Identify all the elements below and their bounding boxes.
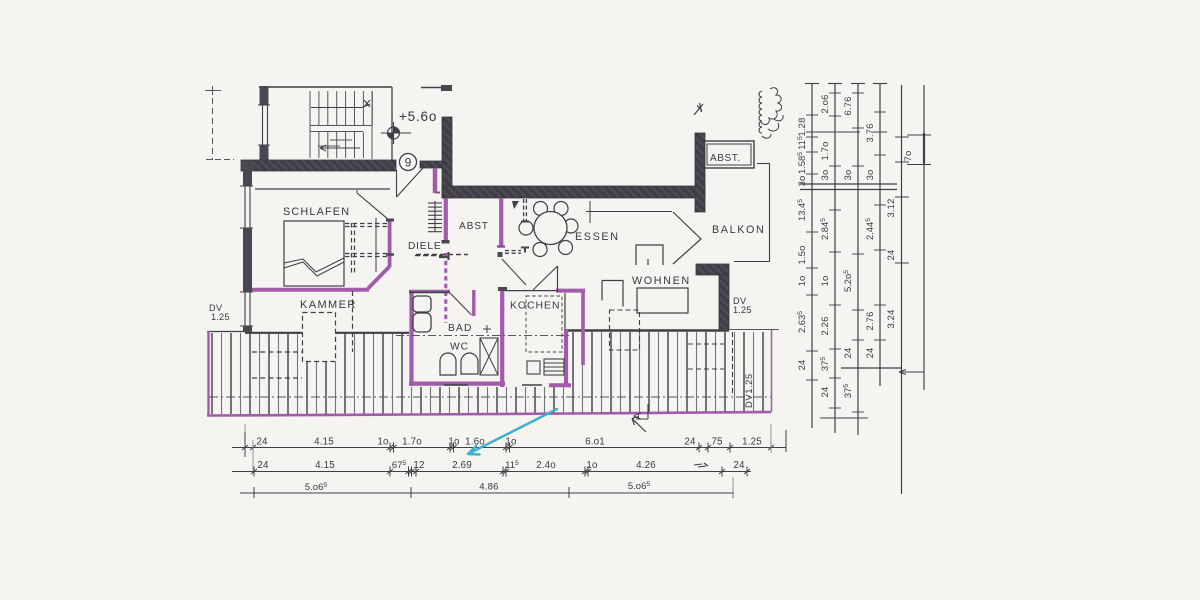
purple SCHLAFEN-KAMMER wall [252, 288, 369, 292]
svg-text:2.76: 2.76 [864, 311, 875, 330]
svg-text:WOHNEN: WOHNEN [632, 275, 691, 287]
svg-text:4.15: 4.15 [314, 437, 334, 448]
hatched band right section under WOHNEN [572, 332, 771, 413]
svg-text:WC: WC [450, 342, 469, 353]
stair block bottom thick wall [241, 160, 396, 171]
left margin dashed line [212, 88, 214, 160]
kochen south purple wall [549, 383, 571, 387]
bed fold zigzag [284, 258, 344, 276]
balkon bottom boundary [734, 261, 770, 263]
left outer wall pier 1 [243, 170, 252, 186]
svg-text:24: 24 [684, 437, 696, 448]
schlafen door leaf from DIELE [357, 193, 389, 220]
kammer lower dashed shelf [252, 351, 302, 353]
svg-text:1o: 1o [377, 437, 389, 448]
entrance door leaf [396, 168, 423, 169]
svg-text:3.24: 3.24 [885, 309, 896, 328]
north arrow [694, 103, 703, 115]
stair upper flight treads [309, 91, 311, 125]
svg-text:ABST.: ABST. [710, 153, 741, 164]
svg-text:24: 24 [257, 460, 269, 471]
hatched band left section under KAMMER [209, 333, 409, 414]
kammer dashed furniture box white [302, 312, 336, 362]
right chain line L3 [857, 83, 859, 435]
right chain L5 ticks [895, 137, 909, 263]
purple ESSEN west wall [499, 198, 503, 246]
stair left window jambs [262, 105, 264, 145]
right block reference double line [800, 183, 897, 185]
right chain line L6 [923, 85, 925, 390]
bad plus mark [483, 325, 491, 333]
schlafen wardrobe cap ticks [386, 253, 394, 255]
door hinge wedge at ESSEN [512, 201, 519, 209]
kochen northeast purple wall [556, 289, 585, 293]
kammer window jambs [244, 292, 246, 326]
left wall corner piece [241, 161, 254, 170]
stair top wall left pier [260, 86, 269, 105]
wohnen bracket shelf upper [636, 245, 663, 265]
black square dot DIELE [498, 252, 503, 257]
stair block top wall line [259, 86, 392, 88]
left outer wall pier 3 [243, 326, 252, 332]
kochen door jamb vertical [557, 266, 559, 292]
schlafen window jambs [244, 186, 246, 228]
svg-text:1.25: 1.25 [211, 312, 230, 322]
kochen west purple wall [500, 288, 504, 387]
band purple bottom edge [207, 412, 771, 416]
dim row2 numbers [257, 460, 745, 471]
schlafen wardrobe dashed box [345, 223, 387, 273]
kammer south wall left part [245, 332, 302, 334]
kammer dashed furniture box border [303, 313, 336, 362]
svg-text:75: 75 [711, 437, 723, 448]
purple DIELE-BAD dashed partition [444, 253, 447, 323]
stair down arrow [320, 145, 360, 151]
svg-text:4.15: 4.15 [315, 460, 335, 471]
svg-text:BAD: BAD [448, 323, 473, 334]
toilet [461, 353, 478, 374]
shower square with X [480, 338, 498, 375]
svg-text:1.5o: 1.5o [796, 245, 807, 264]
svg-text:3.76: 3.76 [864, 123, 875, 142]
wohnen bracket shelf left [602, 281, 623, 307]
svg-text:1o: 1o [819, 276, 830, 287]
dim row2 line [232, 471, 751, 473]
dim row3 ticks [254, 487, 733, 498]
right block rotated numbers [796, 94, 913, 398]
bad north dashed line [415, 255, 443, 257]
main horizontal wall ESSEN north [442, 186, 705, 198]
kitchen stove stripes [544, 359, 564, 375]
svg-text:1.28: 1.28 [796, 117, 807, 136]
svg-text:4.26: 4.26 [636, 460, 656, 471]
svg-text:24: 24 [796, 360, 807, 371]
diele south dashed line [416, 254, 468, 256]
svg-text:24: 24 [256, 437, 268, 448]
diele door leaf diagonal [502, 259, 526, 285]
stair lower small steps [318, 145, 340, 147]
bad door leaf [450, 293, 472, 315]
dim row1 numbers [256, 437, 762, 448]
svg-text:1.7o: 1.7o [402, 437, 422, 448]
svg-text:3o: 3o [864, 170, 875, 181]
right chain L6 ticks [907, 134, 931, 136]
stair lower flight treads [309, 132, 311, 158]
stair left boundary [309, 91, 311, 158]
kochen east purple wall lower [564, 330, 568, 384]
bed rectangle [284, 221, 344, 286]
svg-text:6.76: 6.76 [842, 96, 853, 115]
purple DIELE east wall [444, 198, 448, 242]
stair up arrow line [311, 107, 362, 109]
essen-wohnen purple divider [581, 290, 585, 365]
stair right boundary [371, 91, 373, 159]
right block arrow tick y372 [899, 370, 924, 375]
band top edge right thin [729, 329, 779, 331]
svg-text:3o: 3o [796, 176, 807, 187]
top wall stub right segment [421, 87, 451, 89]
svg-text:1o: 1o [586, 460, 598, 471]
svg-text:ABST: ABST [459, 221, 489, 232]
wohnen south wall [565, 329, 729, 331]
svg-text:7o: 7o [902, 151, 913, 162]
kammer dashed vertical line [352, 291, 354, 352]
svg-text:KOCHEN: KOCHEN [510, 301, 560, 312]
dash-dot line through WC [396, 335, 570, 337]
svg-text:ESSEN: ESSEN [575, 231, 620, 243]
band top edge left [207, 331, 245, 333]
svg-text:24: 24 [885, 250, 896, 261]
purple SCHLAFEN east wall [388, 220, 392, 267]
bad west purple wall [409, 290, 413, 386]
left margin top cross [205, 86, 221, 95]
svg-text:1o: 1o [505, 437, 517, 448]
balkon west wall [695, 133, 705, 212]
radiator in DIELE [428, 201, 442, 232]
svg-text:1o: 1o [796, 276, 807, 287]
plants squiggle [759, 91, 762, 133]
wohnen south-east L wall vertical [719, 275, 729, 329]
kochen door leaf diagonal [533, 266, 558, 290]
hatched band middle section under BAD/KOCHEN [409, 387, 572, 414]
DV height dash-dot line across band [209, 396, 771, 398]
main vertical wall at +5.6 court [442, 117, 452, 198]
svg-text:2.26: 2.26 [819, 316, 830, 335]
apartment number circle 9 [400, 154, 417, 171]
right chain line L4 [879, 83, 881, 386]
svg-text:KAMMER: KAMMER [300, 299, 357, 311]
svg-text:3o: 3o [819, 170, 830, 181]
kammer south wall right part [336, 332, 409, 334]
dining table with chairs [519, 202, 578, 257]
svg-text:12: 12 [413, 460, 424, 471]
dim row2 break mark [694, 463, 708, 467]
band right edge DV line [771, 329, 773, 412]
kochen north line [505, 290, 558, 292]
kitchen sink unit [527, 361, 540, 374]
svg-text:24: 24 [819, 387, 830, 398]
wohnen sofa dashed [610, 310, 641, 350]
svg-text:1.7o: 1.7o [819, 141, 830, 160]
right block connector y418 [820, 417, 868, 419]
washbasin arch [440, 353, 456, 375]
schlafen wardrobe front line [375, 218, 377, 272]
dim extension verticals [244, 424, 246, 432]
schlafen east wall top cap [386, 219, 394, 222]
bathtub upper cell [413, 296, 431, 312]
svg-text:1o: 1o [448, 437, 460, 448]
stair flight divider [310, 131, 363, 133]
right chains top bars [805, 83, 887, 85]
dim row1 ticks [242, 443, 774, 453]
survey point symbol [381, 122, 411, 144]
stair left wall lower pier [260, 145, 269, 163]
svg-text:3.12: 3.12 [885, 198, 896, 217]
svg-text:SCHLAFEN: SCHLAFEN [283, 206, 350, 218]
kitchen threshold ticks [444, 384, 542, 386]
svg-text:2.69: 2.69 [452, 460, 472, 471]
wall segment above DIELE [420, 161, 442, 168]
svg-text:24: 24 [864, 348, 875, 359]
svg-text:2.o6: 2.o6 [819, 94, 830, 113]
dim row1 line [232, 447, 786, 449]
bad north wall [409, 291, 450, 293]
svg-text:6.o1: 6.o1 [585, 437, 605, 448]
essen west dashed wardrobe vertical [523, 199, 525, 222]
left margin mid tick [206, 159, 234, 161]
bad shower partition purple [472, 290, 475, 316]
stair block right wall line [391, 87, 393, 161]
svg-text:3o: 3o [842, 170, 853, 181]
stair up arrowhead with cross [362, 100, 370, 108]
dim row3 line [240, 492, 734, 494]
purple wall below stub DIELE north [433, 168, 438, 193]
diele junction tee [439, 252, 449, 260]
balkon door zigzag [673, 212, 701, 264]
right chains boundary ticks [806, 93, 886, 412]
purple SCHLAFEN chamfer diagonal [368, 267, 390, 289]
dim row2 ticks [251, 467, 750, 477]
right block line y132 [806, 131, 860, 133]
svg-text:DV1.25: DV1.25 [744, 373, 755, 408]
top wall stub dark tip [441, 85, 452, 91]
right chain L6 thick segment [923, 133, 925, 165]
svg-text:+5.6o: +5.6o [399, 109, 437, 124]
left outer wall pier 2 [243, 228, 252, 292]
svg-text:4.86: 4.86 [479, 482, 498, 493]
right chain line L2 [834, 83, 836, 433]
right block vertical x924 lower [923, 366, 925, 390]
bathtub lower cell [413, 313, 431, 332]
wohnen south-east L wall horizontal [696, 264, 729, 275]
bad south purple wall [409, 382, 505, 386]
kitchen counter dashed [526, 296, 562, 352]
abst box top right [704, 141, 754, 168]
right chain line L1 [811, 83, 813, 428]
essen dashed corner tick [521, 221, 529, 223]
cyan pointer arrow [468, 409, 557, 455]
svg-text:24: 24 [842, 348, 853, 359]
schlafen inner ceiling line [255, 188, 390, 190]
svg-text:1.25: 1.25 [733, 305, 752, 315]
section marker A with arrow [632, 404, 648, 432]
wohnen dashed into band [688, 343, 724, 345]
svg-text:2.4o: 2.4o [536, 460, 556, 471]
svg-text:1.25: 1.25 [742, 437, 762, 448]
essen dimension tick [589, 201, 591, 223]
dim row1 end ticks tall [244, 432, 246, 457]
svg-text:BALKON: BALKON [712, 224, 765, 236]
essen southwest dashed pair [505, 250, 521, 252]
band purple left edge [207, 331, 209, 416]
kochen east thin line upper [564, 293, 566, 330]
right chain line L5 [901, 85, 903, 494]
svg-text:DIELE: DIELE [408, 241, 441, 252]
balkon right boundary [769, 163, 771, 261]
svg-text:24: 24 [733, 460, 745, 471]
right block connector y368 [841, 367, 901, 369]
svg-text:9: 9 [405, 156, 412, 170]
stair landing line [310, 125, 372, 127]
wohnen sideboard rect [637, 288, 688, 313]
